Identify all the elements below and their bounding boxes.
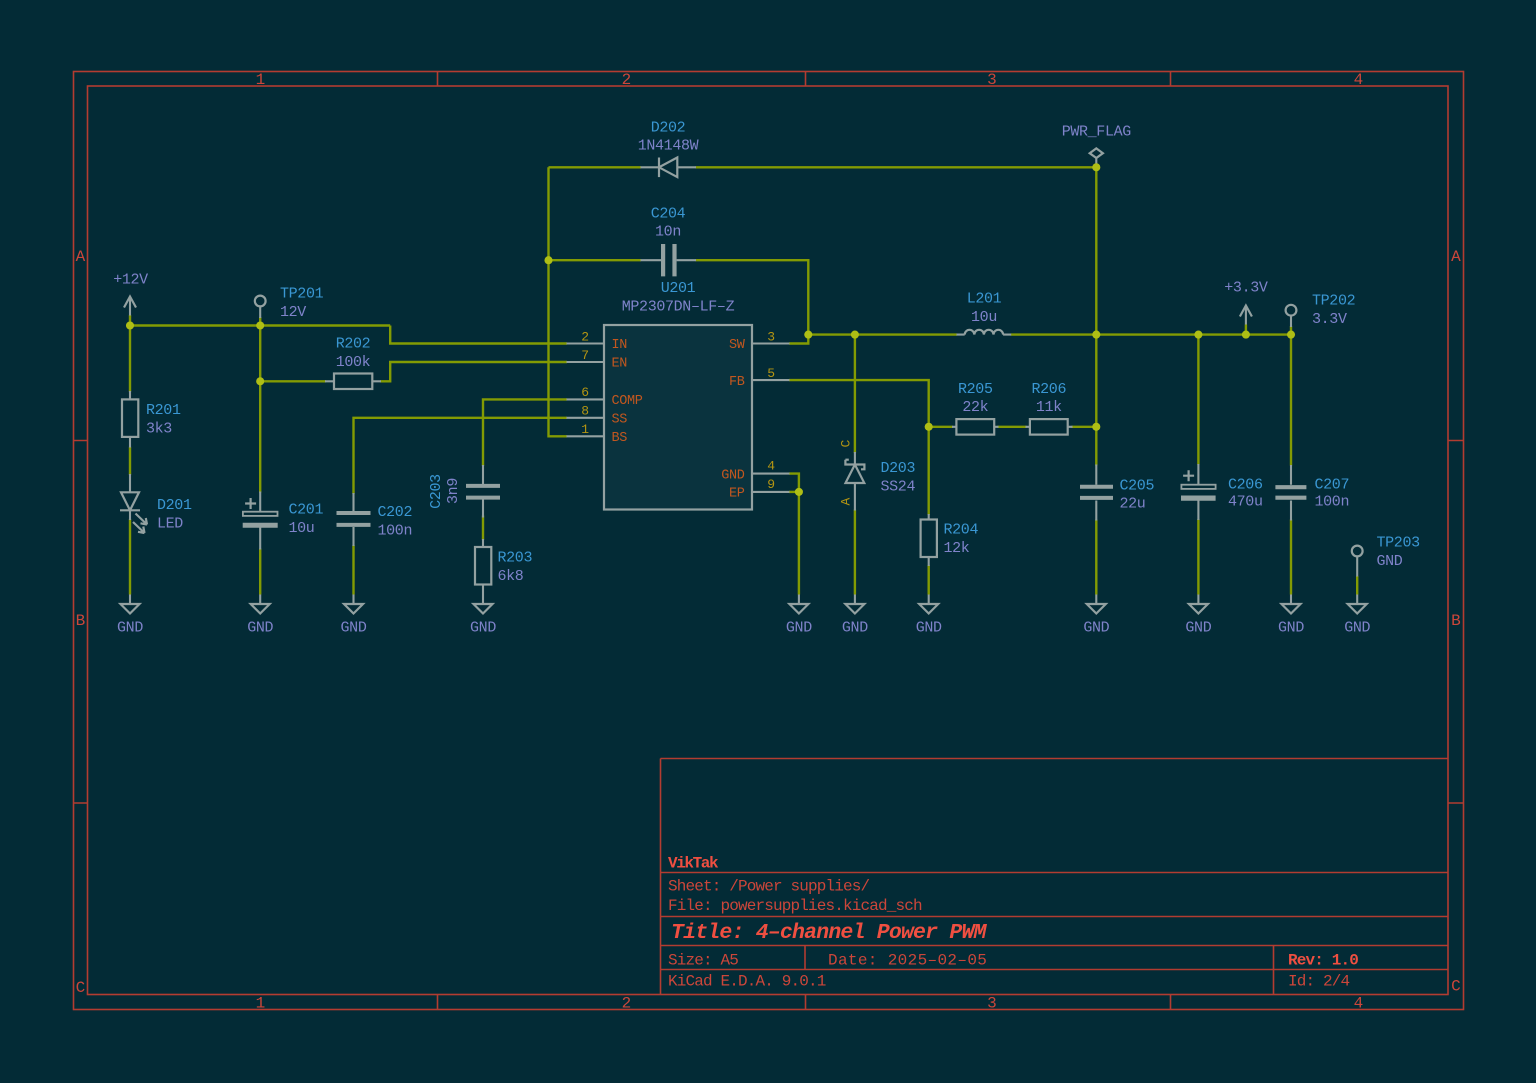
- junction C204 BS node: [544, 256, 552, 264]
- svg-text:TP201: TP201: [280, 286, 324, 303]
- svg-text:9: 9: [767, 477, 774, 492]
- resistor R205: [952, 419, 999, 435]
- LED D201: [120, 474, 147, 533]
- svg-text:TP202: TP202: [1312, 293, 1355, 310]
- svg-text:1: 1: [581, 422, 589, 437]
- svg-text:5: 5: [767, 366, 774, 381]
- svg-text:3n9: 3n9: [445, 478, 462, 504]
- schottky diode D203: [845, 452, 864, 511]
- title block outline: [661, 759, 1449, 995]
- junction C206 node: [1194, 331, 1202, 339]
- wire divider row R205 R206: [929, 426, 1097, 428]
- wire C202 to GND: [352, 545, 354, 595]
- wire D203 anode to GND: [854, 510, 856, 595]
- wire C206 branch: [1197, 335, 1199, 465]
- svg-text:Date: 2025–02–05: Date: 2025–02–05: [828, 952, 987, 970]
- capacitor C207: [1275, 465, 1306, 521]
- svg-text:TP203: TP203: [1377, 535, 1421, 552]
- IC U201 body: [567, 325, 790, 510]
- svg-text:C204: C204: [651, 206, 686, 223]
- capacitor C202: [337, 493, 371, 546]
- svg-text:10n: 10n: [655, 224, 681, 241]
- svg-text:L201: L201: [967, 291, 1002, 308]
- wire TP203 stem to GND: [1356, 576, 1358, 595]
- svg-text:3k3: 3k3: [146, 421, 172, 438]
- svg-text:IN: IN: [612, 338, 628, 353]
- svg-text:D201: D201: [157, 497, 192, 514]
- svg-text:LED: LED: [157, 516, 183, 533]
- junction R202 node: [256, 377, 264, 385]
- wire C205 branch: [1095, 335, 1097, 466]
- svg-text:GND: GND: [1278, 620, 1304, 637]
- svg-text:VikTak: VikTak: [668, 855, 719, 873]
- svg-text:EN: EN: [612, 357, 628, 372]
- svg-text:+3.3V: +3.3V: [1224, 280, 1268, 297]
- svg-text:C: C: [839, 440, 854, 448]
- wire EP pin to node: [789, 491, 799, 493]
- svg-text:SS: SS: [612, 413, 628, 428]
- svg-text:2: 2: [622, 995, 631, 1013]
- svg-text:R203: R203: [498, 550, 533, 567]
- capacitor C206 polarized: [1181, 464, 1216, 520]
- diode D202: [641, 158, 697, 178]
- svg-text:10u: 10u: [971, 309, 997, 326]
- svg-text:1: 1: [256, 71, 265, 89]
- wire EP node down to GND: [798, 492, 800, 595]
- wire rail SW node to L201: [808, 333, 957, 335]
- svg-text:D203: D203: [881, 460, 916, 477]
- junction PWR_FLAG top node: [1092, 163, 1100, 171]
- junction TP201 node: [256, 321, 264, 329]
- wire TP202 stem: [1290, 326, 1292, 335]
- svg-text:11k: 11k: [1036, 399, 1062, 416]
- svg-text:A: A: [839, 498, 854, 506]
- svg-text:Title: 4–channel Power PWM: Title: 4–channel Power PWM: [671, 921, 988, 945]
- wire C203 to R203: [482, 516, 484, 541]
- svg-text:C205: C205: [1120, 478, 1155, 495]
- pin 3 SW: [752, 342, 790, 344]
- svg-text:B: B: [1451, 612, 1460, 630]
- svg-text:100n: 100n: [378, 523, 413, 540]
- wire R202 node down to C201: [259, 381, 261, 492]
- junction SW node: [804, 331, 812, 339]
- wire SW pin jog up to rail: [789, 335, 808, 344]
- power flag PWR_FLAG: [1090, 148, 1103, 167]
- junction +12V node: [126, 321, 134, 329]
- svg-text:SS24: SS24: [881, 479, 916, 496]
- wire +12V down to R201: [129, 326, 131, 393]
- power +3.3V: [1240, 306, 1252, 325]
- svg-text:C: C: [76, 979, 85, 997]
- pin 4 GND: [752, 473, 790, 475]
- svg-text:R204: R204: [944, 522, 979, 539]
- capacitor C204: [641, 244, 697, 276]
- test point TP201: [255, 296, 266, 318]
- wire D203 branch down: [854, 335, 856, 453]
- pin 5 FB: [752, 379, 790, 381]
- svg-text:6k8: 6k8: [498, 568, 524, 585]
- svg-text:R206: R206: [1031, 381, 1066, 398]
- svg-text:B: B: [76, 612, 85, 630]
- svg-text:12k: 12k: [944, 540, 970, 557]
- pin 9 EP: [752, 491, 790, 493]
- pin 2 IN: [567, 342, 605, 344]
- border column ticks top: [438, 72, 1171, 87]
- junction TP202 node: [1287, 331, 1295, 339]
- junction +3.3V node: [1242, 331, 1250, 339]
- svg-text:6: 6: [581, 385, 588, 400]
- svg-text:22k: 22k: [962, 399, 988, 416]
- ground symbols: [121, 595, 140, 614]
- resistor R204: [921, 514, 937, 566]
- wire +3.3V stem: [1245, 325, 1247, 335]
- test point TP202: [1286, 305, 1297, 327]
- wire R202 node to resistor: [260, 380, 326, 382]
- svg-text:GND: GND: [1185, 620, 1211, 637]
- svg-text:R201: R201: [146, 402, 181, 419]
- wire BS to vertical riser: [549, 167, 568, 436]
- wire corner down to IN pin: [390, 326, 567, 344]
- wire R204 to GND: [928, 565, 930, 595]
- wire R204 branch down: [928, 427, 930, 515]
- svg-text:100n: 100n: [1315, 494, 1350, 511]
- svg-text:4: 4: [1354, 995, 1363, 1013]
- wire +12V rail to TP201 to corner: [130, 324, 390, 326]
- svg-text:470u: 470u: [1228, 494, 1263, 511]
- wire +12V stem: [129, 315, 131, 326]
- svg-text:File: powersupplies.kicad_sch: File: powersupplies.kicad_sch: [668, 897, 922, 915]
- svg-text:8: 8: [581, 404, 588, 419]
- svg-text:R205: R205: [958, 381, 993, 398]
- svg-text:22u: 22u: [1120, 496, 1146, 513]
- wire C204 left: [549, 259, 642, 261]
- svg-text:C: C: [1451, 978, 1460, 996]
- svg-text:GND: GND: [842, 620, 868, 637]
- resistor R203: [475, 539, 491, 595]
- svg-text:10u: 10u: [289, 520, 315, 537]
- svg-text:C202: C202: [378, 504, 413, 521]
- border column ticks bottom: [438, 995, 1171, 1010]
- sheet inner border: [88, 86, 1449, 995]
- wire FB to divider node: [789, 380, 929, 427]
- svg-text:C207: C207: [1315, 477, 1350, 494]
- svg-text:C201: C201: [289, 502, 324, 519]
- inductor L201: [957, 330, 1012, 335]
- test point TP203: [1352, 546, 1363, 577]
- svg-text:7: 7: [581, 348, 588, 363]
- svg-text:FB: FB: [729, 375, 745, 390]
- wire D202 cathode to PWR_FLAG node: [696, 166, 1097, 168]
- capacitor C201 polarized: [243, 492, 278, 550]
- svg-text:A: A: [1451, 248, 1461, 266]
- svg-text:1: 1: [256, 995, 265, 1013]
- svg-text:KiCad E.D.A. 9.0.1: KiCad E.D.A. 9.0.1: [668, 973, 826, 991]
- svg-text:3: 3: [987, 995, 996, 1013]
- junction EP GND node: [795, 488, 803, 496]
- svg-text:BS: BS: [612, 431, 628, 446]
- wire R201 to D201: [129, 447, 131, 475]
- svg-text:4: 4: [1354, 71, 1363, 89]
- border row ticks right: [1448, 441, 1463, 804]
- wire C204 right down to SW node: [696, 260, 809, 334]
- wire GND pin over to EP node: [789, 474, 799, 492]
- wire TP201 down to R202 node: [259, 326, 261, 382]
- svg-text:GND: GND: [916, 620, 942, 637]
- svg-text:3: 3: [767, 329, 774, 344]
- resistor R202: [325, 374, 381, 390]
- svg-text:GND: GND: [786, 620, 812, 637]
- svg-text:A: A: [76, 248, 86, 266]
- junction PWR_FLAG node: [1092, 331, 1100, 339]
- svg-text:GND: GND: [721, 468, 745, 483]
- border row ticks left: [74, 441, 88, 804]
- capacitor C205: [1080, 465, 1113, 521]
- svg-text:3.3V: 3.3V: [1312, 311, 1347, 328]
- svg-text:Size: A5: Size: A5: [668, 952, 738, 970]
- svg-text:COMP: COMP: [612, 394, 643, 409]
- svg-text:GND: GND: [117, 620, 143, 637]
- svg-text:GND: GND: [470, 620, 496, 637]
- svg-text:2: 2: [622, 71, 631, 89]
- wire C201 to GND: [259, 549, 261, 595]
- pin 6 COMP: [567, 398, 605, 400]
- wire rail L201 to TP202: [1011, 333, 1291, 335]
- svg-text:C203: C203: [428, 474, 445, 509]
- svg-text:12V: 12V: [280, 304, 306, 321]
- wire PWR_FLAG stem down: [1095, 167, 1097, 334]
- pin 1 BS: [567, 435, 605, 437]
- svg-text:C206: C206: [1228, 477, 1263, 494]
- svg-text:PWR_FLAG: PWR_FLAG: [1062, 124, 1132, 141]
- capacitor C203: [466, 465, 500, 518]
- svg-text:D202: D202: [651, 120, 686, 137]
- svg-text:+12V: +12V: [113, 272, 148, 289]
- svg-text:GND: GND: [1377, 553, 1403, 570]
- wire C207 to GND: [1290, 520, 1292, 595]
- sheet outer border: [74, 72, 1464, 1010]
- svg-text:GND: GND: [1344, 620, 1370, 637]
- svg-text:2: 2: [581, 329, 588, 344]
- wire R202 right to EN pin: [380, 362, 567, 381]
- pin 7 EN: [567, 361, 605, 363]
- resistor R201: [122, 391, 138, 448]
- wire riser to D202 anode: [549, 166, 642, 168]
- svg-text:100k: 100k: [336, 354, 371, 371]
- junction FB divider node: [925, 423, 933, 431]
- wire SS to C202: [354, 418, 568, 494]
- svg-text:1N4148W: 1N4148W: [638, 138, 699, 155]
- wire D201 to GND: [129, 519, 131, 595]
- svg-text:Rev: 1.0: Rev: 1.0: [1288, 952, 1358, 970]
- wire TP201 stem: [259, 317, 261, 326]
- wire C207 branch: [1290, 335, 1292, 466]
- svg-text:4: 4: [767, 459, 775, 474]
- svg-text:EP: EP: [729, 487, 745, 502]
- pin 8 SS: [567, 417, 605, 419]
- svg-text:SW: SW: [729, 338, 746, 353]
- svg-text:Id: 2/4: Id: 2/4: [1288, 973, 1350, 991]
- svg-text:MP2307DN–LF–Z: MP2307DN–LF–Z: [622, 299, 735, 316]
- svg-text:GND: GND: [247, 620, 273, 637]
- junction C205 node: [1092, 423, 1100, 431]
- svg-text:GND: GND: [341, 620, 367, 637]
- wire C206 to GND: [1197, 519, 1199, 595]
- junction D203 node: [851, 331, 859, 339]
- power +12V: [124, 297, 136, 316]
- svg-text:Sheet: /Power supplies/: Sheet: /Power supplies/: [668, 878, 870, 896]
- wire C205 to GND: [1095, 520, 1097, 595]
- svg-text:GND: GND: [1083, 620, 1109, 637]
- svg-text:3: 3: [987, 71, 996, 89]
- svg-text:U201: U201: [661, 280, 696, 297]
- svg-text:R202: R202: [336, 336, 371, 353]
- wire COMP to C203: [483, 399, 567, 466]
- resistor R206: [1026, 419, 1073, 435]
